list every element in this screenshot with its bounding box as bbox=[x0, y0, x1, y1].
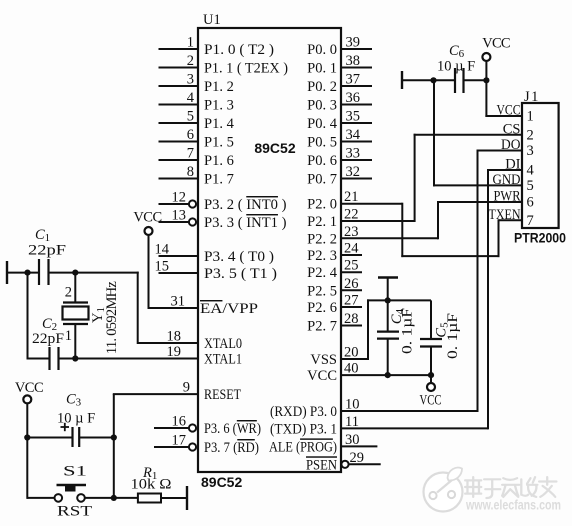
capacitor C6 10uF plates bbox=[454, 68, 456, 93]
power VCC near pin13 bbox=[145, 227, 153, 235]
capacitor C4 0.1uF bbox=[387, 300, 389, 331]
node junction VCC rail / C4 bbox=[385, 372, 391, 378]
wire VCC down to S1 bbox=[26, 403, 28, 499]
node junction S1-R1 / reset vertical bbox=[111, 495, 117, 501]
svg-text:7: 7 bbox=[527, 213, 534, 229]
pin 24 stub + number, right side bbox=[341, 254, 362, 256]
svg-text:VCC: VCC bbox=[307, 368, 337, 384]
pin 8 stub + number, left side bbox=[159, 178, 199, 180]
pin 34 stub + number, right side bbox=[341, 141, 372, 143]
svg-text:13: 13 bbox=[172, 208, 187, 224]
svg-text:P0. 1: P0. 1 bbox=[307, 61, 337, 77]
svg-text:17: 17 bbox=[172, 433, 187, 449]
svg-text:P1. 6: P1. 6 bbox=[204, 153, 234, 169]
svg-text:34: 34 bbox=[346, 127, 361, 143]
svg-text:VCC: VCC bbox=[482, 36, 510, 52]
node junction VCC / J1 pin1 bbox=[483, 77, 489, 83]
svg-text:12: 12 bbox=[172, 190, 187, 206]
svg-text:10 µ F: 10 µ F bbox=[57, 411, 95, 427]
resistor R1 body bbox=[138, 494, 161, 503]
svg-text:P0. 0: P0. 0 bbox=[307, 42, 337, 58]
pin 5 stub + number, left side bbox=[159, 122, 199, 124]
svg-text:P2. 0: P2. 0 bbox=[307, 197, 337, 213]
svg-text:P1. 7: P1. 7 bbox=[204, 172, 234, 188]
svg-text:(RXD) P3. 0: (RXD) P3. 0 bbox=[270, 404, 337, 420]
svg-text:P0. 3: P0. 3 bbox=[307, 98, 337, 114]
wire C6 to VCC node bbox=[464, 79, 487, 81]
wire VSS (pin20) to decoupling ground rail bbox=[341, 358, 368, 360]
svg-text:89C52: 89C52 bbox=[254, 140, 295, 156]
svg-text:32: 32 bbox=[346, 164, 361, 180]
pin 2 stub + number, left side bbox=[159, 67, 199, 69]
wire S1 to R1 bbox=[85, 497, 138, 499]
svg-text:0. 1µF: 0. 1µF bbox=[445, 313, 461, 359]
svg-text:(TXD) P3. 1: (TXD) P3. 1 bbox=[270, 421, 337, 437]
svg-text:7: 7 bbox=[187, 146, 194, 162]
svg-text:1: 1 bbox=[527, 109, 534, 125]
svg-text:22pF: 22pF bbox=[28, 243, 66, 259]
pin 39 stub + number, right side bbox=[341, 48, 372, 50]
wire C3 to reset vertical bbox=[79, 437, 114, 439]
svg-text:VCC: VCC bbox=[497, 103, 521, 119]
svg-text:VCC: VCC bbox=[420, 393, 442, 409]
pin 12 stub + number, left side bbox=[159, 203, 189, 205]
svg-text:10 µ F: 10 µ F bbox=[437, 59, 475, 75]
svg-text:XTAL0: XTAL0 bbox=[204, 336, 242, 352]
svg-text:30: 30 bbox=[345, 432, 360, 448]
svg-text:DO: DO bbox=[501, 137, 521, 153]
svg-text:16: 16 bbox=[172, 414, 187, 430]
pin 27 stub + number, right side bbox=[341, 306, 362, 308]
svg-text:35: 35 bbox=[346, 109, 361, 125]
capacitor C1 22pF plates bbox=[38, 259, 40, 285]
node junction GND wire / C6 rail bbox=[430, 77, 436, 83]
svg-text:CS: CS bbox=[503, 121, 521, 137]
capacitor C5 0.1uF bbox=[430, 300, 432, 339]
svg-text:S1: S1 bbox=[63, 464, 87, 480]
svg-text:3: 3 bbox=[187, 72, 194, 88]
svg-text:4: 4 bbox=[527, 163, 535, 179]
svg-text:6: 6 bbox=[527, 195, 534, 211]
pin 7 stub + number, left side bbox=[159, 159, 199, 161]
pin 26 stub + number, right side bbox=[341, 289, 362, 291]
svg-text:P2. 6: P2. 6 bbox=[307, 300, 337, 316]
svg-text:www.elecfans.com: www.elecfans.com bbox=[465, 498, 561, 513]
svg-text:1: 1 bbox=[65, 328, 72, 344]
capacitor C3 10uF plates bbox=[71, 427, 73, 447]
pin 32 stub + number, right side bbox=[341, 178, 372, 180]
power VCC at reset bbox=[23, 395, 31, 403]
power VCC at C5 bbox=[427, 383, 435, 391]
pin 28 stub + number, right side bbox=[341, 325, 362, 327]
crystal Y1 top lead and plate bbox=[74, 273, 76, 303]
svg-text:P0. 7: P0. 7 bbox=[307, 172, 337, 188]
pin 38 stub + number, right side bbox=[341, 67, 372, 69]
wire C1 to XTAL0 corner bbox=[48, 272, 139, 274]
wire P2.0 (pin21) to TXEN J1-7 bbox=[341, 203, 402, 205]
switch S1 button bbox=[57, 484, 87, 486]
svg-text:P3. 5 ( T1 ): P3. 5 ( T1 ) bbox=[204, 266, 277, 282]
pin 13 stub + number, left side bbox=[159, 221, 189, 223]
crystal Y1 bottom plate and lead bbox=[63, 323, 88, 325]
watermark brand glyphs bbox=[465, 477, 481, 497]
svg-text:DI: DI bbox=[505, 157, 520, 173]
svg-text:P3. 7 (RD): P3. 7 (RD) bbox=[204, 440, 259, 456]
pin 35 stub + number, right side bbox=[341, 122, 372, 124]
svg-text:2: 2 bbox=[65, 285, 72, 301]
wire P3.0/RXD (pin10) to DO J1-3 bbox=[341, 410, 478, 412]
pin 4 stub + number, left side bbox=[159, 104, 199, 106]
svg-text:VCC: VCC bbox=[133, 210, 161, 226]
capacitor C2 22pF plates bbox=[28, 358, 50, 360]
svg-text:5: 5 bbox=[527, 178, 534, 194]
svg-text:P0. 5: P0. 5 bbox=[307, 135, 337, 151]
node junction C3 / reset vertical bbox=[111, 434, 117, 440]
svg-text:P1. 5: P1. 5 bbox=[204, 135, 234, 151]
svg-text:28: 28 bbox=[344, 311, 359, 327]
svg-text:P2. 7: P2. 7 bbox=[307, 319, 337, 335]
svg-text:TXEN: TXEN bbox=[489, 207, 521, 223]
svg-text:ALE (PROG): ALE (PROG) bbox=[269, 439, 337, 455]
svg-text:2: 2 bbox=[527, 127, 534, 143]
pin 15 stub + number, left side bbox=[159, 272, 199, 274]
svg-text:27: 27 bbox=[344, 293, 359, 309]
svg-text:6: 6 bbox=[187, 127, 194, 143]
svg-text:P0. 6: P0. 6 bbox=[307, 153, 337, 169]
svg-text:P0. 2: P0. 2 bbox=[307, 79, 337, 95]
svg-text:3: 3 bbox=[527, 143, 534, 159]
svg-text:EA/VPP: EA/VPP bbox=[200, 301, 258, 317]
svg-text:P2. 2: P2. 2 bbox=[307, 231, 337, 247]
pin 16 stub + number, left side bbox=[154, 427, 189, 429]
svg-text:P2. 3: P2. 3 bbox=[307, 248, 337, 264]
node junction VCC / C3 bbox=[24, 434, 30, 440]
svg-text:P1. 1 ( T2EX ): P1. 1 ( T2EX ) bbox=[204, 61, 288, 77]
wire GND J1-5 to ground rail bbox=[433, 80, 435, 186]
svg-text:0. 1µF: 0. 1µF bbox=[400, 308, 416, 354]
svg-text:U1: U1 bbox=[203, 12, 221, 28]
pin 33 stub + number, right side bbox=[341, 159, 372, 161]
wire C2 to XTAL1 bbox=[59, 358, 199, 360]
pin 14 stub + number, left side bbox=[159, 255, 199, 257]
svg-text:VCC: VCC bbox=[15, 380, 43, 396]
svg-text:P0. 4: P0. 4 bbox=[307, 116, 338, 132]
wire VCC node to J1 pin 1 bbox=[485, 80, 487, 117]
switch S1 contacts bbox=[55, 494, 63, 502]
svg-text:38: 38 bbox=[346, 53, 361, 69]
svg-text:26: 26 bbox=[344, 276, 359, 292]
svg-text:15: 15 bbox=[155, 259, 170, 275]
svg-text:5: 5 bbox=[187, 109, 194, 125]
ground bar at R1 bbox=[186, 486, 188, 510]
wire R1 to ground bbox=[161, 497, 187, 499]
svg-text:25: 25 bbox=[344, 258, 359, 274]
svg-text:P2. 5: P2. 5 bbox=[307, 283, 337, 299]
svg-text:P3. 2 ( INT0 ): P3. 2 ( INT0 ) bbox=[204, 197, 287, 213]
svg-text:XTAL1: XTAL1 bbox=[204, 352, 242, 368]
wire P2.1 (pin22) to CS J1-2 bbox=[341, 220, 415, 222]
svg-text:4: 4 bbox=[187, 90, 195, 106]
plus sign of C3 bbox=[61, 426, 70, 428]
pin 30 stub + number, right side bbox=[341, 445, 377, 447]
svg-text:P3. 4 ( T0 ): P3. 4 ( T0 ) bbox=[204, 249, 274, 265]
svg-text:29: 29 bbox=[350, 450, 365, 466]
wire P3.1/TXD (pin11) to DI J1-4 bbox=[341, 427, 488, 429]
svg-text:10k Ω: 10k Ω bbox=[131, 477, 172, 493]
svg-text:11. 0592MHz: 11. 0592MHz bbox=[104, 281, 120, 355]
wire to C3 bbox=[27, 437, 72, 439]
wire C2 branch down bbox=[27, 273, 29, 360]
node junction VCC rail / C5 bbox=[428, 372, 434, 378]
watermark logo circle bbox=[424, 473, 463, 512]
svg-text:P2. 4: P2. 4 bbox=[307, 265, 338, 281]
ground for C4/C5 rail bbox=[378, 276, 398, 278]
svg-text:36: 36 bbox=[346, 90, 361, 106]
pin 29 stub + number, right side bbox=[341, 461, 348, 468]
svg-text:89C52: 89C52 bbox=[201, 474, 242, 490]
svg-text:14: 14 bbox=[155, 242, 170, 258]
node junction C1-left / C2 branch bbox=[24, 270, 30, 276]
wire reset vertical to RESET pin9 bbox=[113, 394, 115, 498]
svg-text:RESET: RESET bbox=[204, 387, 241, 403]
svg-text:P1. 2: P1. 2 bbox=[204, 79, 234, 95]
svg-text:39: 39 bbox=[346, 35, 361, 51]
node junction VSS rail / C4 bbox=[385, 297, 391, 303]
svg-text:P3. 3 ( INT1 ): P3. 3 ( INT1 ) bbox=[204, 215, 287, 231]
IC U1 89C52 microcontroller body bbox=[198, 28, 341, 472]
svg-text:P2. 1: P2. 1 bbox=[307, 214, 337, 230]
svg-text:24: 24 bbox=[344, 241, 359, 257]
svg-text:RST: RST bbox=[57, 504, 92, 520]
svg-text:PTR2000: PTR2000 bbox=[514, 230, 566, 246]
wire ground to C6 bbox=[402, 79, 455, 81]
pin 36 stub + number, right side bbox=[341, 104, 372, 106]
svg-text:33: 33 bbox=[346, 146, 361, 162]
power VCC at C6 bbox=[482, 53, 490, 61]
svg-text:P1. 0 ( T2 ): P1. 0 ( T2 ) bbox=[204, 42, 274, 58]
pin 25 stub + number, right side bbox=[341, 271, 362, 273]
svg-text:22pF: 22pF bbox=[32, 331, 64, 347]
svg-text:1: 1 bbox=[187, 35, 194, 51]
pin 3 stub + number, left side bbox=[159, 85, 199, 87]
crystal Y1 body bbox=[63, 307, 89, 320]
pin 6 stub + number, left side bbox=[159, 141, 199, 143]
connector J1 PTR2000 body bbox=[522, 103, 559, 228]
wire ground to C1 bbox=[7, 272, 39, 274]
svg-text:P3. 6 (WR): P3. 6 (WR) bbox=[204, 421, 261, 437]
svg-text:P1. 4: P1. 4 bbox=[204, 116, 235, 132]
wire VCC to EA/VPP pin31 bbox=[148, 235, 150, 309]
pin 37 stub + number, right side bbox=[341, 85, 372, 87]
svg-text:37: 37 bbox=[346, 72, 361, 88]
pin 1 stub + number, left side bbox=[159, 48, 199, 50]
svg-text:VSS: VSS bbox=[310, 352, 337, 368]
wire P2.2 (pin23) to PWR J1-6 bbox=[341, 237, 438, 239]
node junction crystal bottom bbox=[72, 355, 78, 361]
ground bar at crystal caps bbox=[6, 261, 8, 284]
node junction crystal top bbox=[72, 270, 78, 276]
svg-text:8: 8 bbox=[187, 164, 194, 180]
svg-text:GND: GND bbox=[493, 172, 521, 188]
wire VCC rail (pin40) bbox=[341, 374, 432, 376]
pin 17 stub + number, left side bbox=[154, 446, 189, 448]
svg-text:P1. 3: P1. 3 bbox=[204, 98, 234, 114]
svg-text:J1: J1 bbox=[524, 89, 540, 105]
svg-text:PWR: PWR bbox=[494, 189, 521, 205]
svg-text:PSEN: PSEN bbox=[306, 457, 337, 473]
ground bar at C6 bbox=[401, 71, 403, 89]
svg-text:2: 2 bbox=[187, 53, 194, 69]
